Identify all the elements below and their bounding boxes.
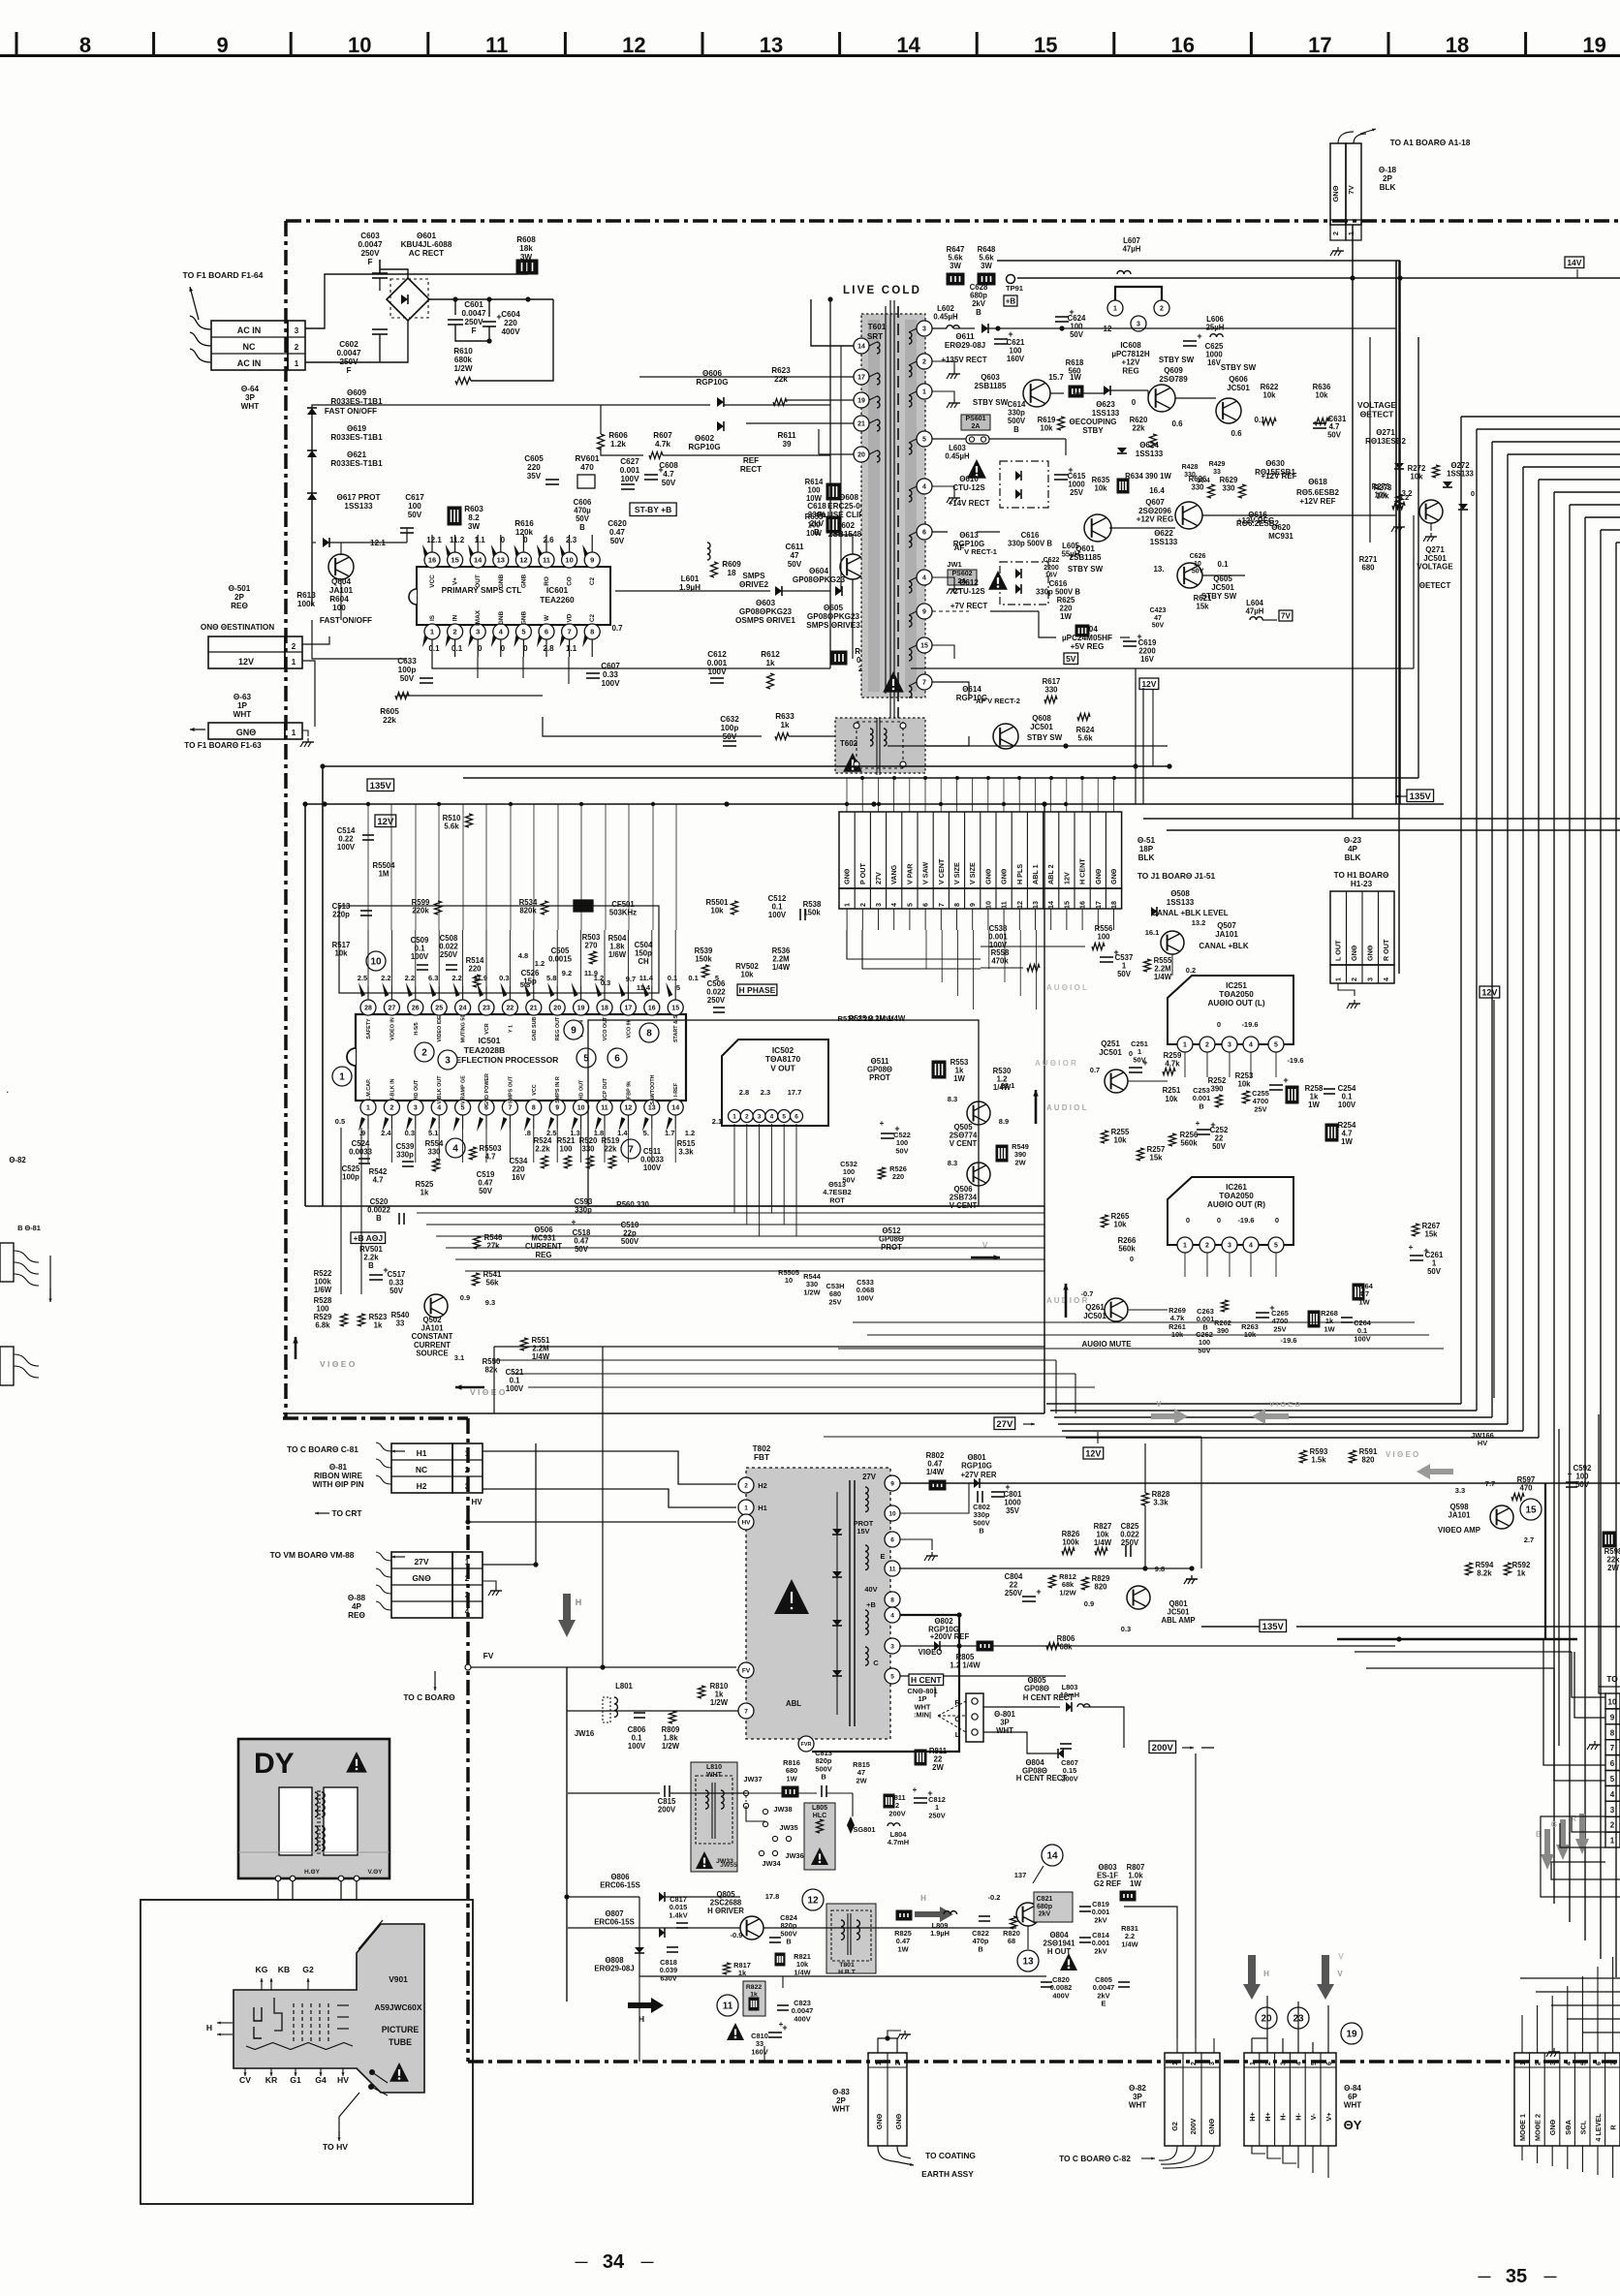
svg-text:820: 820 xyxy=(1094,1583,1107,1592)
svg-text:C2: C2 xyxy=(589,576,596,585)
svg-text:4: 4 xyxy=(1610,1790,1615,1799)
svg-text:+B: +B xyxy=(866,1600,876,1609)
svg-text:10: 10 xyxy=(1608,1698,1617,1707)
svg-text:AF V RECT-2: AF V RECT-2 xyxy=(976,697,1020,705)
svg-text:24: 24 xyxy=(459,1006,467,1012)
svg-text:ROT: ROT xyxy=(829,1195,845,1204)
svg-text:20: 20 xyxy=(553,1006,561,1012)
pin 7 IC601 xyxy=(562,624,577,639)
svg-text:CH: CH xyxy=(638,957,649,966)
svg-text:27V: 27V xyxy=(414,1557,428,1567)
svg-text:3: 3 xyxy=(874,903,883,907)
svg-text:2kV: 2kV xyxy=(1039,1911,1051,1918)
svg-text:2P: 2P xyxy=(836,2096,846,2105)
svg-text:0.1: 0.1 xyxy=(1217,560,1229,569)
svg-text:5: 5 xyxy=(715,974,719,982)
svg-text:+: + xyxy=(779,2020,784,2029)
svg-text:0.1: 0.1 xyxy=(668,974,677,982)
svg-text:H.B.T: H.B.T xyxy=(838,1970,857,1976)
svg-text:16: 16 xyxy=(1171,33,1195,57)
svg-text:VOLTAGE: VOLTAGE xyxy=(1417,563,1453,572)
svg-text:H: H xyxy=(206,2023,212,2032)
svg-text:V I Θ E O: V I Θ E O xyxy=(1269,1400,1300,1409)
svg-text:H: H xyxy=(576,1598,582,1607)
svg-text:27k: 27k xyxy=(486,1242,500,1251)
svg-text:0.6: 0.6 xyxy=(1171,419,1183,428)
svg-text:Θ-501: Θ-501 xyxy=(229,584,251,593)
svg-text:B: B xyxy=(376,1214,382,1223)
svg-text:1M: 1M xyxy=(379,870,389,879)
pin 1 IC261 xyxy=(1177,1237,1193,1253)
svg-text:5: 5 xyxy=(1610,1775,1615,1784)
svg-text:VIDEO IN: VIDEO IN xyxy=(389,1017,395,1040)
pin 23 IC501 xyxy=(479,1000,494,1015)
svg-text:0.7: 0.7 xyxy=(1090,1066,1100,1074)
svg-text:+: + xyxy=(1036,1587,1041,1597)
svg-text:VIΘEO AMP: VIΘEO AMP xyxy=(1438,1526,1480,1535)
svg-text:V PAR: V PAR xyxy=(905,863,914,884)
svg-text:TO J1 BOARΘ J1-51: TO J1 BOARΘ J1-51 xyxy=(1137,871,1216,881)
wire bottom rail to Q804 xyxy=(775,1975,1046,1977)
svg-text:1k: 1k xyxy=(765,659,775,667)
svg-text:ABL 2: ABL 2 xyxy=(1046,864,1055,884)
svg-text:L805: L805 xyxy=(812,1805,827,1812)
svg-text:A U D I O L: A U D I O L xyxy=(1046,1103,1087,1112)
svg-text:220: 220 xyxy=(892,1172,904,1181)
svg-text:5: 5 xyxy=(1580,2062,1587,2065)
picture tube solid box xyxy=(140,1900,473,2204)
svg-text:390: 390 xyxy=(1217,1326,1229,1335)
warning triangle T601 xyxy=(883,671,904,693)
svg-text:IMAX: IMAX xyxy=(475,609,482,626)
svg-text:4P: 4P xyxy=(352,1602,362,1611)
svg-text:1.1: 1.1 xyxy=(475,536,486,544)
svg-text:220: 220 xyxy=(504,319,517,327)
svg-text:VCC: VCC xyxy=(532,1084,538,1095)
wires deflection bottom comb xyxy=(367,1129,369,1163)
svg-text:12.1: 12.1 xyxy=(426,536,442,544)
svg-text:SAWTOOTH: SAWTOOTH xyxy=(650,1074,656,1104)
svg-text:F: F xyxy=(367,258,372,266)
svg-text:FBT: FBT xyxy=(754,1453,769,1462)
svg-text:1SS133: 1SS133 xyxy=(1447,470,1474,479)
transformer T601 SRT shaded body xyxy=(861,314,925,698)
transistor Q605 JC501 STBY SW xyxy=(1177,563,1202,588)
svg-text:JW34: JW34 xyxy=(762,1859,781,1868)
svg-text:IC261: IC261 xyxy=(1226,1183,1247,1192)
T802 pins left xyxy=(738,1477,754,1493)
svg-text:100V: 100V xyxy=(337,843,356,852)
svg-text:1: 1 xyxy=(1183,1042,1187,1049)
svg-text:2: 2 xyxy=(421,1048,427,1059)
svg-text:+: + xyxy=(1568,1470,1573,1478)
svg-text:6: 6 xyxy=(922,530,926,537)
svg-text:WHT: WHT xyxy=(832,2105,850,2114)
svg-text:2: 2 xyxy=(1350,977,1358,981)
svg-text:2.8: 2.8 xyxy=(543,644,554,653)
wire bus line 8 xyxy=(1570,504,1620,506)
svg-text:11: 11 xyxy=(889,1566,896,1572)
svg-text:BLK: BLK xyxy=(1345,853,1361,862)
T601 pin 5 secondary xyxy=(917,431,932,447)
svg-text:C604: C604 xyxy=(501,310,520,319)
svg-text:R535 2.2M 1/4W: R535 2.2M 1/4W xyxy=(838,1014,894,1023)
svg-text:25µH: 25µH xyxy=(1206,324,1225,332)
pin 12 IC501 xyxy=(620,1100,636,1115)
svg-text:2: 2 xyxy=(295,343,299,352)
wires AC input xyxy=(305,274,380,328)
svg-text:8.2: 8.2 xyxy=(468,513,480,522)
connector AC IN table xyxy=(211,321,288,370)
svg-text:6: 6 xyxy=(1610,1759,1615,1768)
svg-text:100p: 100p xyxy=(398,666,417,674)
thick H arrow bottom left xyxy=(628,1998,664,2013)
svg-text:1/4W: 1/4W xyxy=(772,963,791,972)
svg-text:STBY SW: STBY SW xyxy=(1068,565,1104,574)
T802 internal diodes xyxy=(832,1529,842,1535)
svg-text:17: 17 xyxy=(1094,901,1103,909)
svg-text:26: 26 xyxy=(412,1006,420,1012)
svg-text:5.6k: 5.6k xyxy=(444,822,459,831)
svg-text:3: 3 xyxy=(465,1591,470,1599)
svg-text:14V: 14V xyxy=(1567,258,1581,267)
svg-text:TUBE: TUBE xyxy=(389,2037,412,2047)
svg-text:12: 12 xyxy=(807,1896,819,1907)
svg-text:5: 5 xyxy=(521,628,525,636)
svg-text:0: 0 xyxy=(1275,1216,1279,1225)
svg-text:2.8: 2.8 xyxy=(739,1088,749,1097)
pin 5 IC261 xyxy=(1268,1237,1284,1253)
svg-text:5: 5 xyxy=(676,983,680,992)
svg-text:C821: C821 xyxy=(1037,1896,1053,1903)
svg-text:2.6: 2.6 xyxy=(543,536,554,544)
wire DY feeds from D-84 up xyxy=(1251,1928,1253,1996)
svg-text:135V: 135V xyxy=(1410,791,1432,802)
wire 14V rail top xyxy=(997,260,1400,262)
transistor Q604 JA101 xyxy=(328,554,354,579)
diode D612 CTU-12S +7V RECT dashed xyxy=(1000,562,1048,605)
svg-text:2: 2 xyxy=(292,642,296,651)
svg-text:A U Θ I Ο L: A U Θ I Ο L xyxy=(1046,983,1087,992)
pin 5 IC502 xyxy=(778,1110,791,1123)
svg-text:330p: 330p xyxy=(396,1151,414,1160)
svg-text:40V: 40V xyxy=(864,1585,877,1594)
svg-text:R634 390 1W: R634 390 1W xyxy=(1125,472,1171,481)
svg-text:C633: C633 xyxy=(397,657,417,666)
gray VIDEO arrow mid xyxy=(1252,1409,1289,1424)
svg-text:RGP10G: RGP10G xyxy=(688,443,720,451)
pin 2 IC261 xyxy=(1199,1237,1215,1253)
svg-text:470: 470 xyxy=(1519,1484,1533,1493)
svg-text:RO: RO xyxy=(544,576,550,586)
wire IC601 top pin bus xyxy=(432,523,610,535)
svg-text:+: + xyxy=(658,465,663,475)
svg-text:+12V REF: +12V REF xyxy=(1299,497,1335,506)
svg-text:CANAL +BLK LEVEL: CANAL +BLK LEVEL xyxy=(1151,909,1228,917)
svg-text:4 LEVEL: 4 LEVEL xyxy=(1594,2113,1603,2142)
svg-text:22: 22 xyxy=(507,1006,514,1012)
wire harness curves D-81 xyxy=(376,1443,391,1451)
wire bus line 1 xyxy=(1461,416,1620,418)
svg-text:9: 9 xyxy=(890,1480,894,1487)
pin 5 IC601 xyxy=(515,624,531,639)
svg-text:15: 15 xyxy=(1034,33,1057,57)
svg-text:630V: 630V xyxy=(660,1973,676,1982)
capacitor C624 100 50V xyxy=(1055,316,1069,318)
pin 16 IC601 xyxy=(424,552,440,568)
svg-text:V SIZE: V SIZE xyxy=(952,862,961,884)
svg-text:—: — xyxy=(641,2254,654,2269)
wire canal blk feed xyxy=(981,946,1085,947)
svg-text:3: 3 xyxy=(922,326,926,333)
svg-text:50V: 50V xyxy=(1212,1142,1227,1151)
warning triangle FBT xyxy=(774,1579,809,1614)
svg-text:2: 2 xyxy=(465,1466,470,1474)
boxed 135V right xyxy=(1407,790,1434,802)
svg-text:0: 0 xyxy=(1186,1216,1190,1225)
svg-text:7: 7 xyxy=(508,1105,512,1112)
pin 3 IC601 xyxy=(470,624,485,639)
svg-text:TO F1 BOARD F1-64: TO F1 BOARD F1-64 xyxy=(183,270,264,280)
svg-text:T802: T802 xyxy=(753,1444,771,1453)
T601 pin 2 secondary xyxy=(917,354,932,369)
svg-text:100V: 100V xyxy=(768,911,787,919)
svg-text:200V: 200V xyxy=(1061,1774,1077,1783)
gray RGB arrows xyxy=(1541,1829,1554,1870)
svg-text:680: 680 xyxy=(1361,564,1375,573)
svg-text:8: 8 xyxy=(590,628,594,636)
svg-text:WHT: WHT xyxy=(1129,2101,1146,2110)
svg-text:C603: C603 xyxy=(360,232,380,240)
T602 pin circles xyxy=(854,723,859,729)
svg-text:11: 11 xyxy=(601,1105,608,1112)
wire Q507 emitter stub xyxy=(1171,954,1173,976)
svg-text:H+: H+ xyxy=(1248,2112,1257,2121)
circled annotations inside IC501 xyxy=(332,1067,352,1086)
svg-text:H OUT: H OUT xyxy=(1047,1947,1071,1956)
wire rail C xyxy=(305,803,1444,805)
svg-text:SOURCE: SOURCE xyxy=(416,1349,448,1357)
svg-text:2: 2 xyxy=(1331,232,1340,235)
svg-text:470k: 470k xyxy=(991,957,1009,966)
svg-text:2.7: 2.7 xyxy=(1524,1536,1534,1544)
svg-text:GNΘ: GNΘ xyxy=(983,868,992,884)
svg-text:R033ES-T1B1: R033ES-T1B1 xyxy=(330,433,383,442)
resistor R811 22 2W xyxy=(915,1750,926,1765)
svg-text:JC501: JC501 xyxy=(1211,583,1234,592)
svg-text:0.3: 0.3 xyxy=(1121,1625,1131,1633)
wire pin5 xyxy=(900,1675,1066,1677)
svg-text:H-: H- xyxy=(1279,2113,1288,2121)
svg-text:2: 2 xyxy=(1191,2062,1198,2065)
connector D-82 3P G2 200V GND xyxy=(1165,2053,1220,2146)
circled 15 xyxy=(1520,1499,1542,1520)
svg-text:16V: 16V xyxy=(1207,358,1222,367)
svg-text:3: 3 xyxy=(1137,322,1140,328)
svg-text:R604: R604 xyxy=(329,595,349,604)
transformer T601 core lines xyxy=(889,300,891,722)
svg-text:12: 12 xyxy=(622,33,645,57)
svg-text:GNΘ: GNΘ xyxy=(875,2113,884,2129)
svg-text:+: + xyxy=(383,1265,388,1275)
svg-text:GNB: GNB xyxy=(520,611,527,626)
svg-text:+12V: +12V xyxy=(1122,358,1141,367)
svg-text:10k: 10k xyxy=(1040,424,1053,433)
svg-text:15: 15 xyxy=(671,1006,679,1012)
svg-text:4: 4 xyxy=(889,903,898,907)
svg-text:V CENT: V CENT xyxy=(950,1201,978,1210)
pin 13 IC501 xyxy=(644,1100,660,1115)
svg-text:68k: 68k xyxy=(1059,1643,1073,1652)
svg-text:220: 220 xyxy=(468,965,482,974)
svg-text:3: 3 xyxy=(1228,1042,1231,1049)
op-amp IC251 TDA2050 AUDIO OUT L xyxy=(1168,976,1293,1044)
svg-text:R: R xyxy=(1609,2125,1618,2130)
svg-text:6: 6 xyxy=(545,628,548,636)
svg-text:Θ612: Θ612 xyxy=(959,578,979,587)
svg-text:2kV: 2kV xyxy=(1094,1946,1106,1955)
circled 13 xyxy=(1017,1950,1039,1971)
svg-text:14: 14 xyxy=(474,556,483,565)
svg-text:3: 3 xyxy=(758,1113,762,1120)
wire Q602 collector xyxy=(830,535,853,554)
svg-text:2: 2 xyxy=(465,1574,470,1583)
warning triangle DY xyxy=(346,1752,367,1773)
svg-text:ABL AMP: ABL AMP xyxy=(1161,1616,1195,1625)
svg-text:7: 7 xyxy=(744,1708,748,1715)
connector harness curves xyxy=(190,287,199,320)
svg-text:10k: 10k xyxy=(1410,473,1423,481)
svg-text:GNΘ: GNΘ xyxy=(1000,868,1009,884)
svg-text:15k: 15k xyxy=(1196,603,1209,611)
svg-text:250V: 250V xyxy=(440,950,458,959)
svg-text:0: 0 xyxy=(1217,1216,1221,1225)
regulator IC608 jumper pins 1 2 3 xyxy=(1115,287,1162,300)
svg-text:JC501: JC501 xyxy=(1227,384,1250,392)
svg-text:VCR: VCR xyxy=(484,1023,490,1034)
svg-text:15.7: 15.7 xyxy=(1048,373,1064,382)
svg-text:H ΘRIVER: H ΘRIVER xyxy=(707,1907,744,1915)
wire right vertical 1444 xyxy=(1398,261,1400,974)
wire rail y770 right xyxy=(888,745,1168,747)
svg-text:R610: R610 xyxy=(453,347,473,356)
transistor Q609 xyxy=(1148,385,1175,412)
IC IC501 TEA2028B deflection processor xyxy=(356,1014,686,1101)
svg-text:9.3: 9.3 xyxy=(485,1298,495,1307)
svg-text:V+: V+ xyxy=(1324,2113,1333,2122)
svg-text:1.2: 1.2 xyxy=(594,974,604,982)
svg-text:ΘY: ΘY xyxy=(1344,2118,1362,2132)
svg-text:10k: 10k xyxy=(1094,484,1107,493)
wire T601 primary feeds xyxy=(811,299,854,346)
svg-text:0: 0 xyxy=(1217,1020,1221,1029)
svg-text:C618: C618 xyxy=(807,502,826,511)
svg-text:+: + xyxy=(1142,1058,1147,1068)
svg-text:2P: 2P xyxy=(1383,174,1393,183)
svg-text:V: V xyxy=(1156,1400,1162,1409)
svg-text:3: 3 xyxy=(465,1482,470,1491)
svg-text:3.1: 3.1 xyxy=(454,1353,464,1362)
svg-text:28.1: 28.1 xyxy=(1001,1081,1015,1090)
svg-text:20: 20 xyxy=(857,452,865,459)
svg-text:4.7k: 4.7k xyxy=(1170,1314,1185,1322)
wire +B pin4 rail thick xyxy=(900,1614,959,1616)
svg-text:JC501: JC501 xyxy=(1083,1312,1106,1320)
svg-text:JW33: JW33 xyxy=(716,1858,733,1865)
svg-text:RIBON WIRE: RIBON WIRE xyxy=(314,1472,363,1480)
svg-text:120k: 120k xyxy=(515,528,534,537)
svg-text:1.2: 1.2 xyxy=(685,1129,695,1137)
wire rail y690 right xyxy=(911,667,1414,669)
svg-text:1.1: 1.1 xyxy=(566,644,577,653)
svg-text:200V: 200V xyxy=(1189,2118,1198,2134)
wire rail 12V to audio xyxy=(1152,689,1154,766)
svg-text:0.1: 0.1 xyxy=(1254,416,1265,424)
wire bus line 3 xyxy=(1492,441,1620,443)
svg-text:1SS133: 1SS133 xyxy=(1092,409,1120,418)
pin 2 IC502 xyxy=(740,1110,753,1123)
svg-text:IN: IN xyxy=(452,614,459,621)
svg-text:R822: R822 xyxy=(746,1984,762,1991)
thick H arrow right xyxy=(915,1907,953,1922)
svg-text:2.3: 2.3 xyxy=(761,1088,770,1097)
svg-text:VIDEO IDE: VIDEO IDE xyxy=(437,1015,443,1042)
svg-text:9.2: 9.2 xyxy=(562,969,572,977)
wire FBT right pin stubs xyxy=(900,1483,969,1513)
svg-text:JC501: JC501 xyxy=(1423,554,1447,563)
svg-text:GNΘ: GNΘ xyxy=(843,868,852,884)
circled 20 xyxy=(1256,2007,1277,2029)
svg-text:+5V REG: +5V REG xyxy=(1071,642,1105,651)
svg-text:+200V REF: +200V REF xyxy=(930,1632,970,1641)
svg-text:25V: 25V xyxy=(1070,488,1084,497)
wire FV from FBT xyxy=(736,1669,738,1671)
svg-text:13: 13 xyxy=(648,1105,656,1112)
svg-text:35V: 35V xyxy=(527,472,542,481)
test point TP91 xyxy=(1007,275,1015,284)
svg-text:H1: H1 xyxy=(417,1448,427,1458)
svg-text:100p: 100p xyxy=(721,724,739,732)
svg-text:B: B xyxy=(579,523,585,532)
svg-text:PS601: PS601 xyxy=(965,416,985,422)
svg-text:JC501: JC501 xyxy=(1099,1048,1122,1057)
wire hcent vertical xyxy=(934,1687,936,1697)
jumper transformer L810 WHT block xyxy=(691,1762,737,1872)
svg-text:220p: 220p xyxy=(332,911,350,919)
svg-text:22k: 22k xyxy=(774,375,788,384)
pin 21 IC501 xyxy=(526,1000,542,1015)
ground below D-18 xyxy=(1337,247,1339,251)
pin 5 IC251 xyxy=(1268,1037,1284,1052)
svg-text:+B AΘJ: +B AΘJ xyxy=(353,1233,383,1243)
svg-text:GNΘ: GNΘ xyxy=(1207,2118,1216,2134)
svg-text:200V: 200V xyxy=(658,1806,676,1815)
wire mid video horizontals xyxy=(494,1359,1056,1361)
pin 3 IC261 xyxy=(1222,1237,1237,1253)
svg-text:9: 9 xyxy=(590,556,594,565)
svg-text:6.3: 6.3 xyxy=(428,974,438,982)
svg-text:Θ623: Θ623 xyxy=(1096,400,1115,409)
svg-text:1: 1 xyxy=(744,1505,748,1511)
wires D-84 pins up xyxy=(1251,2038,1253,2053)
boxed +B ADJ xyxy=(351,1232,386,1244)
svg-text:10k: 10k xyxy=(1237,1080,1251,1089)
svg-text:0.1: 0.1 xyxy=(452,644,463,653)
svg-text:0.0047: 0.0047 xyxy=(358,240,382,249)
svg-text:1.9µH: 1.9µH xyxy=(930,1929,950,1938)
svg-text:T801: T801 xyxy=(839,1962,855,1969)
svg-text:.8: .8 xyxy=(525,1129,531,1137)
